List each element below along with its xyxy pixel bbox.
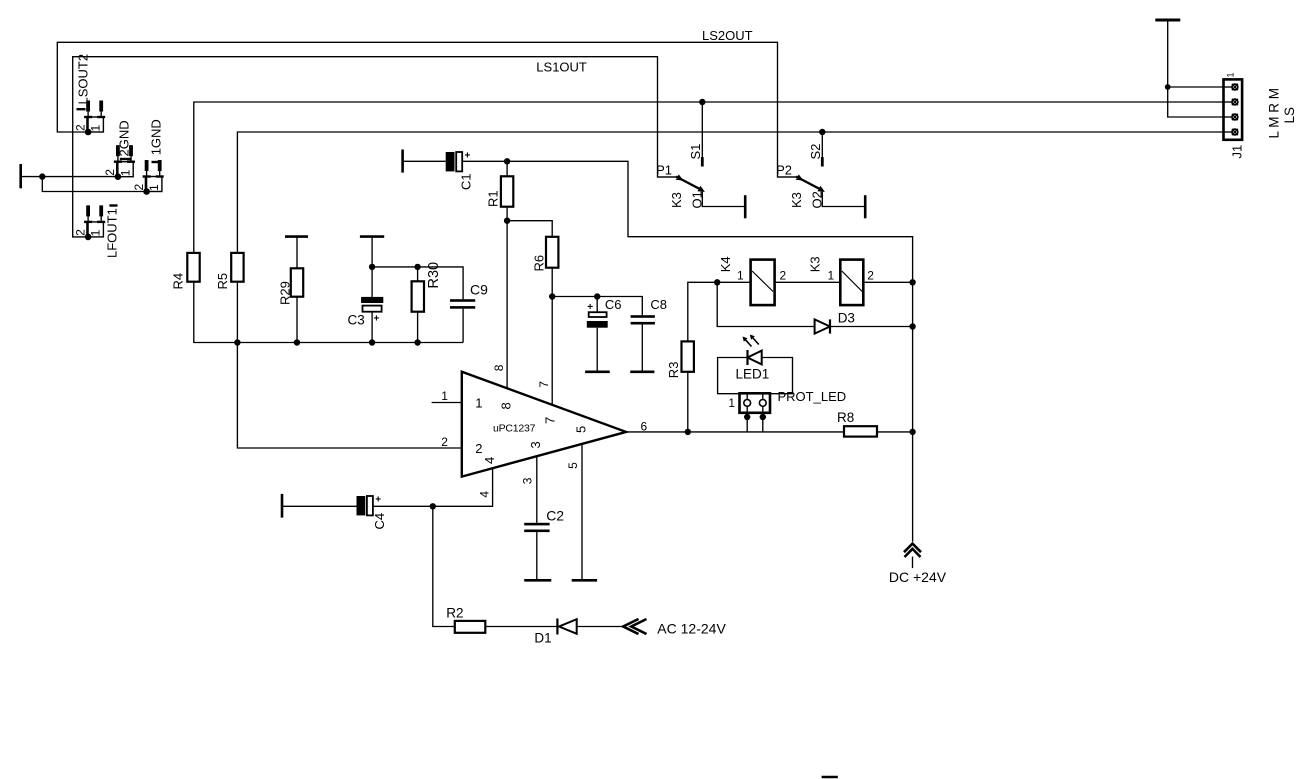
capacitor C1 (polarized) (446, 151, 474, 191)
svg-text:D3: D3 (838, 311, 855, 326)
switch contact P1 / K3 O1 (656, 163, 745, 219)
capacitor C4 (polarized) (357, 495, 388, 530)
wire R1 bottom to pin8 of U1 (506, 207, 508, 389)
svg-text:R30: R30 (426, 262, 442, 289)
resistor R29 (278, 268, 304, 305)
svg-text:1: 1 (828, 269, 835, 283)
junction dot R29/bus (294, 339, 300, 345)
svg-text:3: 3 (528, 441, 543, 448)
pin 1 stub of U1 (432, 389, 483, 411)
svg-text:DC +24V: DC +24V (889, 569, 947, 585)
relay coil K4 (718, 256, 787, 305)
pin 2 of U1 (441, 435, 482, 456)
svg-text:3: 3 (521, 477, 535, 484)
wire R6 bottom to pin7 of U1 (551, 268, 553, 405)
capacitor C8 (631, 297, 667, 325)
wire C8 to ground bar (641, 325, 643, 372)
pin 6 output wire of U1 (626, 420, 913, 434)
ground symbol at C1 (401, 150, 404, 173)
svg-text:2: 2 (73, 229, 87, 236)
svg-text:2: 2 (780, 269, 787, 283)
svg-text:C8: C8 (650, 297, 667, 312)
svg-text:1: 1 (737, 269, 744, 283)
wire D3 row (717, 282, 814, 326)
svg-text:1: 1 (89, 125, 103, 132)
pin 7 label of U1 (537, 381, 558, 424)
junction dot ground branch (39, 173, 45, 179)
junction dot C3/bus (369, 339, 375, 345)
wire LED loop left (718, 358, 748, 394)
svg-text:K3: K3 (789, 192, 804, 208)
capacitor C3 (polarized) (348, 297, 384, 328)
svg-text:7: 7 (537, 381, 551, 388)
svg-text:1: 1 (729, 398, 735, 410)
svg-text:4: 4 (478, 491, 492, 498)
wire bus branch down to opamp pin2 (237, 343, 461, 449)
svg-text:7: 7 (543, 417, 558, 424)
ground bar C6 (585, 370, 610, 373)
junction dot R30 top (414, 264, 420, 270)
svg-text:PROT_LED: PROT_LED (778, 389, 847, 404)
LED LED1 (736, 335, 770, 382)
op-amp U1 uPC1237 (462, 372, 626, 477)
power flag AC 12-24V (623, 619, 726, 637)
wire C3 node to R30 top and C9 top (372, 267, 463, 299)
svg-text:P2: P2 (776, 163, 792, 178)
ground symbol left (19, 164, 22, 188)
ground bar pin5 (572, 579, 597, 582)
svg-text:C3: C3 (348, 313, 365, 328)
svg-text:2: 2 (132, 184, 146, 191)
ground symbol at C4 (281, 494, 284, 518)
connector LFOUT1 (73, 205, 119, 258)
resistor R6 (532, 237, 559, 272)
resistor R5 (215, 253, 244, 290)
svg-text:R29: R29 (278, 281, 293, 305)
junction dot C4 node (430, 503, 436, 509)
wire junction to R1 (506, 161, 508, 176)
pin 8 label of U1 (492, 364, 514, 409)
capacitor C9 (450, 282, 488, 309)
resistor R1 (486, 176, 514, 207)
svg-text:J1: J1 (1230, 145, 1245, 159)
svg-text:6: 6 (641, 420, 648, 434)
capacitor C6 (polarized) (587, 297, 622, 328)
wire ground to C1 (403, 160, 446, 162)
svg-text:2: 2 (867, 269, 874, 283)
svg-text:4: 4 (482, 457, 497, 464)
junction dot R30/bus (414, 339, 420, 345)
wire ground to C4 (282, 505, 357, 507)
svg-text:S1: S1 (688, 144, 703, 160)
ground bar C2 (524, 579, 551, 582)
junction dot C1/R1 (504, 158, 510, 164)
connector 2GND (103, 120, 135, 180)
svg-text:C1: C1 (459, 173, 474, 190)
sheet frame mark bottom (822, 776, 838, 779)
svg-text:C2: C2 (546, 508, 564, 524)
junction dot K4 pin1 node (714, 279, 720, 285)
junction dot C3 top node (369, 264, 375, 270)
junction dot R5/bus (234, 339, 240, 345)
terminal bar above R29 (285, 235, 308, 238)
wire ground to 2GND connector (22, 176, 118, 178)
wire D1 to AC input (577, 626, 624, 628)
svg-text:+: + (465, 151, 471, 162)
connector LSOUT2 (73, 54, 105, 135)
svg-text:K4: K4 (718, 256, 733, 272)
svg-text:R2: R2 (446, 606, 463, 621)
svg-text:1: 1 (441, 389, 448, 403)
wire C6 to ground bar (596, 328, 598, 372)
svg-text:2: 2 (441, 435, 448, 449)
pin 5 label of U1 (566, 426, 589, 469)
wire R6 junction to C6 and C8 (552, 297, 642, 317)
power flag DC +24V (889, 544, 947, 585)
svg-text:+: + (375, 495, 381, 506)
junction dot R6 bottom (549, 293, 555, 299)
wire relay row from R3 top (688, 282, 751, 341)
svg-text:1: 1 (475, 396, 482, 411)
svg-text:P1: P1 (656, 163, 672, 178)
wire ground branch to 1GND connector (42, 177, 146, 192)
wire junction to R6 top (507, 221, 552, 237)
wire net LS2OUT from LSOUT2 connector to switch P2 (57, 42, 796, 177)
junction dot R3/pin6 (685, 429, 691, 435)
wire C2 to ground (536, 532, 538, 580)
svg-text:uPC1237: uPC1237 (493, 423, 536, 435)
svg-text:R1: R1 (486, 190, 501, 207)
wire R30 top stub (417, 267, 419, 281)
svg-text:R4: R4 (171, 273, 186, 290)
svg-text:K3: K3 (808, 256, 823, 272)
svg-text:+: + (587, 302, 593, 313)
connector J1 (1224, 72, 1298, 158)
svg-text:2: 2 (73, 124, 87, 131)
svg-text:1: 1 (147, 184, 161, 191)
junction dot gnd/J1 (1165, 84, 1171, 90)
svg-text:LS1OUT: LS1OUT (536, 60, 587, 75)
svg-text:1: 1 (118, 169, 132, 176)
diode D1 (534, 619, 576, 646)
ground bar C8 (630, 370, 654, 373)
wire C1 to R1 top junction and over to +24V rail (462, 161, 912, 541)
pin 3 label of U1 (521, 441, 544, 484)
wire C9 bottom to bus end (462, 309, 464, 343)
svg-text:D1: D1 (534, 631, 551, 646)
connector PROT_LED (729, 389, 847, 413)
wire R5 bottom to bus (236, 282, 238, 343)
wire gnd to J1 pin1 and pin3 (1168, 20, 1224, 117)
svg-text:1GND: 1GND (149, 119, 164, 155)
wire LED loop right (762, 358, 793, 394)
junction dot rail/pin6 row (909, 429, 915, 435)
switch contact P2 / K3 O2 (776, 163, 865, 219)
svg-text:8: 8 (492, 364, 506, 371)
wire C3 bottom to bus (371, 312, 373, 343)
wire net LS1OUT from LFOUT1 connector to switch P1 (73, 57, 676, 237)
wire R2 to D1 (485, 626, 558, 628)
svg-text:+: + (374, 314, 380, 325)
svg-text:2: 2 (103, 169, 117, 176)
svg-text:R5: R5 (215, 273, 230, 290)
pin 4 label of U1 (478, 457, 498, 498)
wire R30 bottom to bus (417, 312, 419, 343)
resistor R3 (666, 341, 694, 378)
wire C4 node down to R2 (433, 506, 455, 626)
terminal bar above C3 (360, 235, 384, 238)
wire bar to C3 node (371, 237, 373, 297)
svg-text:C9: C9 (470, 282, 488, 298)
wire R3 bottom to pin6 wire (687, 372, 689, 432)
svg-text:2GND: 2GND (117, 120, 132, 156)
svg-text:LFOUT1: LFOUT1 (105, 208, 120, 258)
junction dot rail/relay row (909, 279, 915, 285)
wires PROT_LED pins down to pin6 wire (744, 413, 766, 432)
wire K4 to K3 (775, 281, 841, 283)
svg-text:1: 1 (1226, 72, 1236, 77)
resistor R4 (171, 253, 200, 290)
svg-text:LED1: LED1 (736, 367, 770, 382)
junction dot R1 bottom (504, 218, 510, 224)
resistor R30 (412, 262, 442, 312)
svg-text:2: 2 (475, 441, 482, 456)
connector 1GND (132, 119, 164, 195)
junction dot rail/D3 row (909, 323, 915, 329)
svg-text:LS: LS (1282, 107, 1297, 124)
wire bar to R29 (296, 237, 298, 269)
svg-text:R8: R8 (837, 410, 854, 425)
svg-text:AC 12-24V: AC 12-24V (657, 621, 726, 637)
capacitor C2 (524, 508, 564, 533)
wire K3 to rail (863, 281, 912, 283)
svg-text:R3: R3 (666, 362, 681, 379)
wire pin5 to ground (581, 444, 583, 580)
diode D3 (815, 311, 855, 334)
svg-text:R6: R6 (532, 255, 547, 272)
wire net to J1 pin4 (S2 net) (237, 132, 1223, 253)
wire R4 bottom to bus (194, 282, 463, 343)
relay coil K3 (808, 256, 875, 305)
wire to C6 (596, 297, 598, 313)
svg-text:LSOUT2: LSOUT2 (76, 54, 91, 105)
wire pin3 of U1 to C2 (536, 456, 538, 523)
wire R29 bottom to bus (296, 297, 298, 343)
ground bar top right (1155, 19, 1180, 22)
wire net S2 from bus to switch (808, 129, 826, 167)
wire D3 to rail (830, 326, 913, 328)
svg-text:C6: C6 (605, 297, 622, 312)
wire C4 to pin4 of U1 (373, 468, 493, 506)
svg-text:8: 8 (499, 402, 514, 409)
svg-text:O1: O1 (690, 191, 705, 208)
svg-text:LS2OUT: LS2OUT (702, 28, 753, 43)
resistor R2 (446, 606, 485, 633)
svg-text:5: 5 (566, 462, 580, 469)
wire net to J1 pin2 (S1 net) (194, 102, 1224, 253)
junction dot C6 top (594, 293, 600, 299)
svg-text:L M R M: L M R M (1267, 88, 1282, 139)
svg-text:1: 1 (89, 229, 103, 236)
resistor R8 (837, 410, 877, 437)
svg-text:K3: K3 (669, 192, 684, 208)
svg-text:C4: C4 (372, 513, 387, 530)
svg-text:5: 5 (573, 426, 588, 433)
svg-text:S2: S2 (808, 144, 823, 160)
wire net S1 from bus to switch (688, 99, 706, 167)
svg-text:O2: O2 (810, 191, 825, 208)
